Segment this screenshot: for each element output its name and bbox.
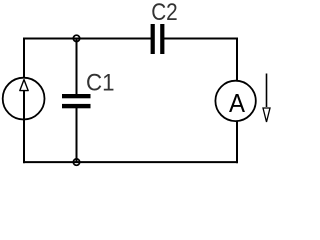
svg-text:A: A bbox=[229, 88, 246, 118]
svg-text:C1: C1 bbox=[86, 70, 115, 97]
ammeter A1 bbox=[215, 81, 255, 121]
wire middle branch upper bbox=[76, 39, 78, 95]
current source I1 bbox=[3, 78, 45, 120]
wire left vertical lower bbox=[23, 119, 25, 163]
wire top-left horizontal bbox=[23, 38, 151, 40]
wire left vertical upper bbox=[23, 38, 25, 78]
svg-text:C2: C2 bbox=[151, 0, 178, 26]
capacitor C1 bbox=[62, 94, 91, 108]
current direction arrow bbox=[263, 74, 270, 123]
wire top-right horizontal bbox=[164, 38, 238, 40]
wire right vertical upper bbox=[236, 38, 238, 82]
wire bottom horizontal bbox=[23, 161, 238, 163]
capacitor C2 bbox=[151, 24, 165, 54]
wire middle branch lower bbox=[76, 108, 78, 162]
wire right vertical lower bbox=[236, 121, 238, 164]
node junction bottom bbox=[73, 159, 79, 165]
node junction top bbox=[73, 35, 79, 41]
